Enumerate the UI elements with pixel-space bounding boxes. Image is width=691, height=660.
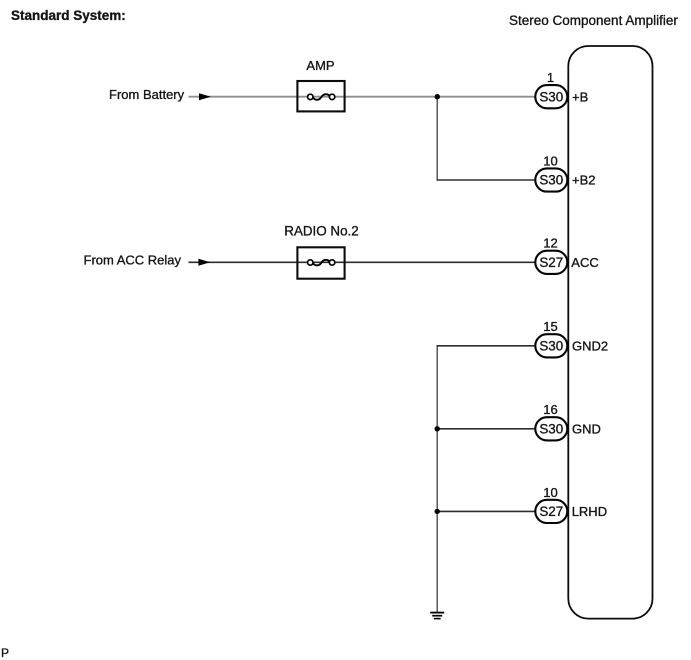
svg-text:+B: +B <box>572 89 588 104</box>
svg-text:From Battery: From Battery <box>109 87 185 102</box>
svg-text:P: P <box>1 646 9 660</box>
svg-text:GND: GND <box>572 421 601 436</box>
svg-text:S30: S30 <box>539 338 563 353</box>
svg-text:S30: S30 <box>539 421 563 436</box>
svg-text:ACC: ACC <box>571 255 598 270</box>
svg-text:Stereo Component Amplifier: Stereo Component Amplifier <box>509 13 678 28</box>
svg-text:Standard System:: Standard System: <box>11 8 126 23</box>
svg-text:1: 1 <box>547 70 554 85</box>
svg-text:+B2: +B2 <box>572 173 596 188</box>
svg-text:S30: S30 <box>539 89 563 104</box>
svg-text:GND2: GND2 <box>572 338 608 353</box>
svg-text:S27: S27 <box>539 504 563 519</box>
svg-text:12: 12 <box>543 236 557 251</box>
svg-text:S27: S27 <box>539 255 563 270</box>
svg-text:LRHD: LRHD <box>572 504 607 519</box>
svg-text:15: 15 <box>543 319 557 334</box>
svg-text:S30: S30 <box>539 173 563 188</box>
svg-text:RADIO No.2: RADIO No.2 <box>284 224 358 239</box>
svg-text:From ACC Relay: From ACC Relay <box>84 253 182 268</box>
svg-text:10: 10 <box>543 153 557 168</box>
svg-text:AMP: AMP <box>306 58 334 73</box>
svg-text:16: 16 <box>543 402 557 417</box>
svg-text:10: 10 <box>543 485 557 500</box>
